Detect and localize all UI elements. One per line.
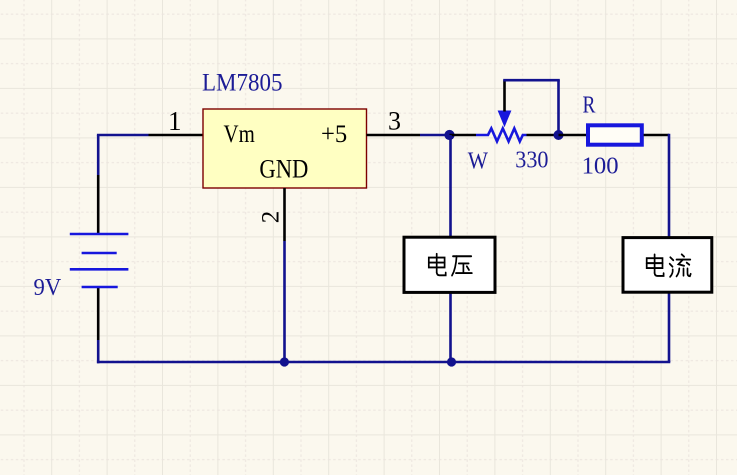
- junction: node B (pot right / wiper): [554, 130, 564, 140]
- junction: voltmeter at bottom rail: [447, 357, 456, 366]
- svg-text:3: 3: [388, 107, 401, 136]
- wire: potentiometer right lead to node B (black): [527, 134, 559, 137]
- svg-text:+5: +5: [321, 121, 347, 148]
- voltmeter box 电压: [404, 237, 495, 292]
- wire: left vertical from battery - plate down (black part): [97, 288, 100, 341]
- svg-text:2: 2: [258, 211, 285, 224]
- regulator U1 LM7805 body: [203, 109, 367, 188]
- potentiometer wiper arrow: [498, 111, 512, 128]
- ammeter box 电流: [623, 238, 712, 293]
- wire: wiper loop top horizontal (blue): [503, 79, 560, 82]
- svg-text:GND: GND: [259, 155, 308, 184]
- svg-text:330: 330: [515, 148, 548, 174]
- wire: pin 3 stub from chip right (black part): [367, 134, 421, 137]
- wire: voltmeter vertical from node A through box to rail (blue): [449, 135, 452, 362]
- ammeter label 电流 (drawn glyphs): [647, 254, 691, 276]
- junction: GND net at bottom rail: [280, 357, 289, 366]
- wire: right vertical down to ammeter (blue): [668, 134, 671, 362]
- battery BT1 9V: [70, 234, 129, 287]
- wire: left vertical down to battery + plate (black part): [97, 175, 100, 234]
- wire: pin 2 vertical down to rail (blue part): [283, 241, 286, 362]
- wire: wiper loop right vertical (blue): [557, 80, 560, 135]
- wire: node B to resistor R left lead (black): [559, 134, 587, 137]
- wire: resistor right lead to right corner (black): [644, 134, 669, 137]
- svg-text:9V: 9V: [34, 275, 62, 301]
- wire: node A to potentiometer left lead (black): [450, 134, 477, 137]
- wire: top-left horizontal from corner to pin 1 (blue part): [97, 134, 149, 137]
- svg-text:100: 100: [582, 153, 619, 179]
- wire: bottom ground rail: [97, 361, 670, 364]
- potentiometer W 330 zigzag: [476, 128, 527, 141]
- svg-text:Vm: Vm: [224, 121, 256, 148]
- wire: top-left horizontal pin 1 lead (black part): [149, 134, 204, 137]
- wire: pin 3 to node A (blue part): [420, 134, 450, 137]
- wire: left vertical to bottom rail corner (blue part): [97, 340, 100, 363]
- junction: node A (output node): [444, 130, 454, 140]
- wire: wiper vertical stem (black): [503, 80, 506, 111]
- svg-text:W: W: [468, 149, 489, 175]
- svg-text:1: 1: [168, 106, 182, 136]
- svg-text:LM7805: LM7805: [202, 69, 283, 96]
- svg-text:R: R: [583, 92, 596, 118]
- voltmeter label 电压 (drawn glyphs): [429, 254, 472, 276]
- resistor R 100 body: [588, 125, 642, 144]
- wire: pin 2 stub from chip bottom (black part): [283, 188, 286, 241]
- wire: left vertical from corner (blue part): [97, 135, 100, 175]
